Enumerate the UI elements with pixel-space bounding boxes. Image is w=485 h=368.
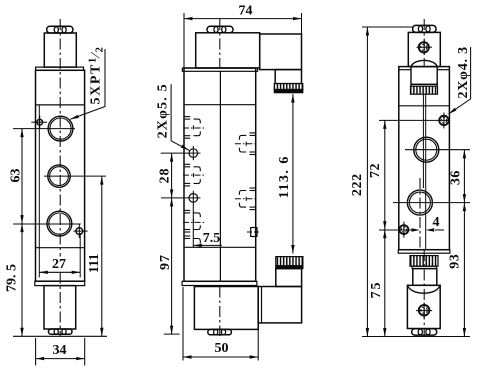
svg-text:34: 34: [53, 343, 67, 358]
svg-text:28: 28: [158, 168, 173, 184]
svg-text:2Xφ4. 3: 2Xφ4. 3: [456, 46, 471, 98]
svg-text:4: 4: [433, 215, 440, 230]
svg-text:36: 36: [449, 170, 464, 185]
svg-text:72: 72: [368, 163, 383, 178]
svg-text:97: 97: [158, 254, 173, 270]
svg-text:75: 75: [369, 281, 384, 299]
svg-text:79. 5: 79. 5: [5, 264, 20, 292]
svg-text:111: 111: [87, 254, 102, 273]
svg-text:113. 6: 113. 6: [277, 155, 292, 198]
svg-text:2Xφ5. 5: 2Xφ5. 5: [155, 83, 170, 138]
svg-text:7.5: 7.5: [203, 231, 221, 246]
svg-text:50: 50: [215, 341, 229, 356]
svg-text:222: 222: [350, 173, 365, 196]
svg-text:63: 63: [9, 169, 24, 183]
svg-text:93: 93: [448, 254, 463, 269]
svg-text:74: 74: [239, 4, 253, 19]
svg-text:27: 27: [52, 257, 66, 272]
